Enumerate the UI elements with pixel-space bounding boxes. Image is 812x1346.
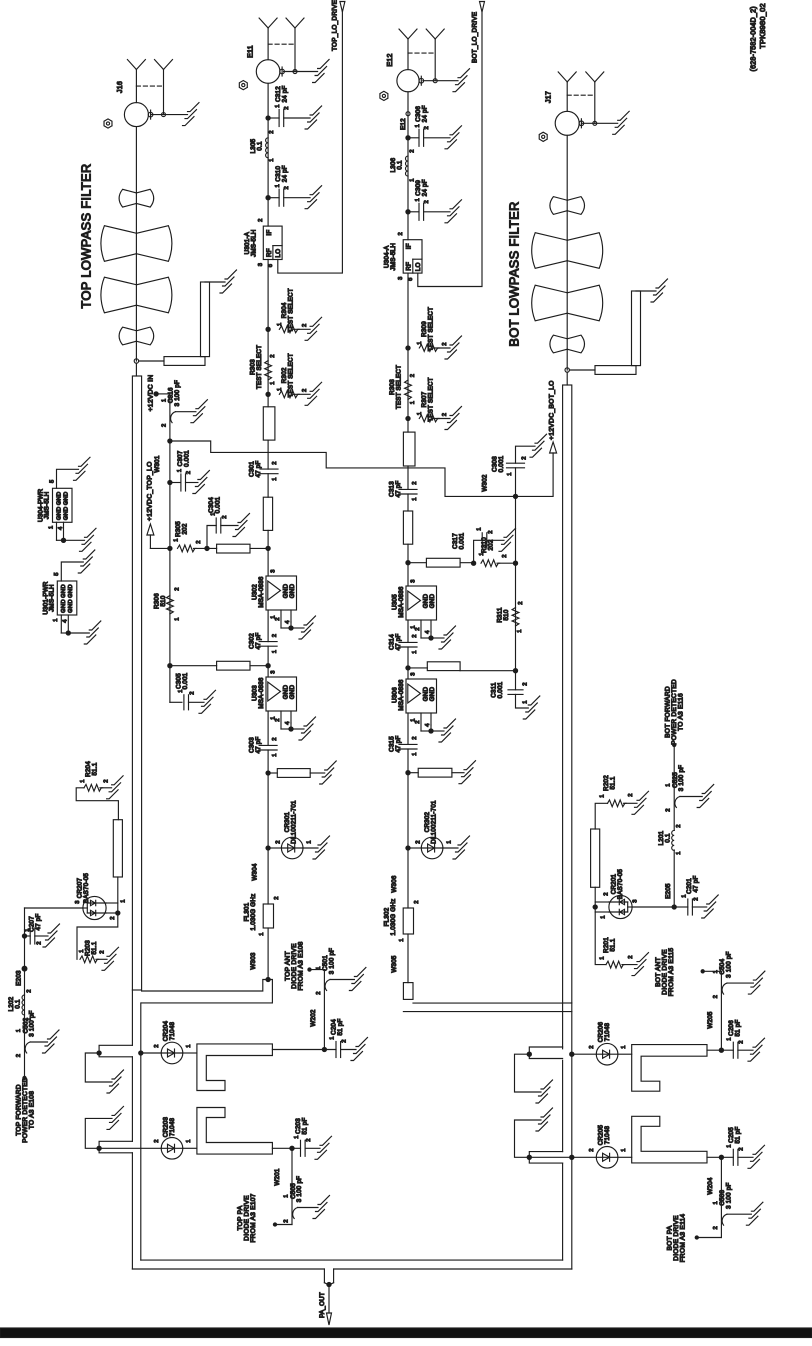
svg-text:RF: RF	[406, 262, 413, 271]
antenna at E11	[267, 28, 269, 60]
node at BOT lowpass output	[565, 368, 569, 372]
svg-text:TEST SELECT: TEST SELECT	[288, 288, 295, 332]
coupled line rect TOP detector	[113, 820, 122, 877]
svg-text:202: 202	[182, 523, 189, 534]
resistor R204	[84, 784, 103, 791]
inductor L202	[22, 995, 25, 1015]
svg-text:1: 1	[713, 970, 719, 973]
svg-text:2: 2	[521, 456, 527, 459]
svg-text:1: 1	[523, 700, 529, 703]
capacitor C317	[474, 540, 483, 563]
svg-text:W305: W305	[391, 955, 398, 972]
svg-text:47 pF: 47 pF	[255, 632, 262, 649]
svg-text:1: 1	[272, 477, 278, 480]
wire J17 shell to ground	[582, 122, 618, 124]
microstrip C-section TOP PA	[197, 1108, 273, 1155]
svg-text:2: 2	[738, 1040, 744, 1043]
wire detector output	[24, 908, 26, 1078]
amplifier U306	[406, 679, 437, 713]
svg-text:GND: GND	[61, 599, 67, 613]
svg-text:GND: GND	[56, 491, 62, 505]
arrow +12VDC_BOT_LO	[550, 442, 557, 453]
capacitor C302	[259, 641, 277, 643]
svg-text:1: 1	[446, 840, 452, 843]
svg-text:0.001: 0.001	[182, 672, 189, 689]
svg-text:E12: E12	[387, 53, 394, 66]
svg-text:0.1: 0.1	[257, 141, 264, 151]
matching stub line TOP	[139, 360, 164, 362]
resistor R305	[150, 547, 171, 549]
svg-text:TEST SELECT: TEST SELECT	[428, 307, 435, 351]
svg-text:W301: W301	[154, 455, 161, 472]
feedthrough C505	[293, 1208, 298, 1219]
wire	[407, 713, 409, 744]
svg-text:2: 2	[36, 941, 42, 944]
svg-text:JMS-5LH: JMS-5LH	[44, 492, 51, 520]
bias row R310	[406, 561, 410, 565]
diode CR203	[99, 1147, 161, 1149]
capacitor C313	[399, 488, 417, 490]
capacitor C206	[732, 1042, 734, 1058]
svg-text:71048: 71048	[169, 1021, 176, 1040]
wire E11 down	[267, 83, 269, 226]
feedthrough C504	[722, 983, 727, 994]
wire W305	[407, 934, 409, 983]
connector E11	[256, 60, 280, 84]
svg-text:GND: GND	[61, 584, 67, 598]
svg-text:47 pF: 47 pF	[255, 736, 262, 753]
wire J17 to lowpass junction	[566, 135, 568, 370]
svg-text:3 100 pF: 3 100 pF	[678, 765, 685, 791]
svg-text:51.1: 51.1	[610, 776, 617, 789]
svg-text:2: 2	[628, 793, 634, 796]
wire	[407, 620, 409, 642]
svg-text:4: 4	[285, 620, 291, 624]
svg-text:2: 2	[270, 354, 276, 357]
wire to C204	[272, 1049, 336, 1051]
svg-text:6: 6	[268, 264, 274, 267]
svg-text:2: 2	[398, 232, 404, 235]
svg-text:FROM A3 E108: FROM A3 E108	[298, 941, 305, 990]
svg-text:1: 1	[53, 618, 59, 621]
wire	[267, 440, 269, 469]
svg-text:FROM A3 E115: FROM A3 E115	[668, 948, 675, 997]
svg-text:2: 2	[442, 342, 448, 345]
svg-text:47 pF: 47 pF	[395, 480, 402, 497]
dashed antenna link J17	[567, 94, 595, 96]
svg-text:2: 2	[275, 718, 281, 721]
diode CR302	[406, 846, 410, 850]
capacitor C306	[406, 136, 410, 140]
svg-text:2: 2	[410, 374, 416, 377]
microstrip C-section TOP ANT	[197, 1044, 273, 1091]
svg-text:51 pF: 51 pF	[735, 1126, 742, 1143]
svg-text:6: 6	[408, 277, 414, 280]
svg-text:2: 2	[415, 627, 421, 630]
resistor R202	[608, 800, 627, 807]
wire	[267, 750, 269, 848]
svg-text:GND: GND	[289, 583, 296, 598]
matching stub line BOT	[569, 369, 595, 371]
node at lowpass output	[134, 359, 138, 363]
svg-text:3 100 pF: 3 100 pF	[174, 380, 181, 406]
wire W205	[720, 971, 722, 1050]
svg-text:RF: RF	[266, 248, 273, 257]
coupler tab 1 TOP	[99, 1045, 132, 1057]
transmission line rect (U303 row)	[217, 661, 250, 670]
svg-text:24 pF: 24 pF	[422, 105, 429, 122]
svg-text:3 100 pF: 3 100 pF	[725, 951, 732, 977]
diode CR301	[266, 846, 270, 850]
wire W303	[267, 928, 269, 980]
microstrip C-section BOT PA	[632, 1116, 707, 1163]
microstrip C-section BOT ANT	[632, 1045, 707, 1092]
svg-text:1: 1	[726, 1144, 732, 1147]
wire J16 shell to ground	[151, 114, 188, 116]
svg-text:2: 2	[258, 218, 264, 221]
wire	[407, 749, 409, 848]
flag TOP_LO_DRIVE	[340, 2, 345, 13]
wire down to CR201	[594, 887, 596, 907]
resistor R309 TEST SELECT	[406, 346, 410, 350]
junction W303 to box	[266, 977, 270, 981]
svg-text:2: 2	[713, 1226, 719, 1229]
svg-text:47 pF: 47 pF	[35, 913, 42, 930]
svg-text:GND: GND	[429, 593, 436, 608]
svg-text:51.1: 51.1	[91, 941, 98, 954]
svg-text:2: 2	[103, 779, 109, 782]
svg-text:1: 1	[417, 412, 423, 415]
svg-text:+12VDC_TOP_LO: +12VDC_TOP_LO	[146, 461, 153, 521]
svg-text:2: 2	[175, 587, 181, 590]
svg-text:1: 1	[120, 899, 126, 902]
svg-text:2: 2	[272, 634, 278, 637]
svg-text:2: 2	[272, 737, 278, 740]
svg-text:5: 5	[54, 572, 60, 575]
svg-text:3: 3	[75, 900, 81, 903]
svg-text:BAS70-05: BAS70-05	[617, 869, 624, 900]
svg-text:J17: J17	[545, 91, 552, 103]
wire	[267, 711, 269, 745]
svg-text:GND: GND	[56, 506, 62, 520]
bowtie stub 4	[119, 327, 136, 345]
svg-text:51 pF: 51 pF	[337, 1018, 344, 1035]
bowtie stub 3 BOT	[532, 285, 568, 321]
svg-text:1: 1	[48, 526, 54, 529]
svg-text:0.001: 0.001	[498, 455, 505, 472]
svg-text:2: 2	[302, 389, 308, 392]
capacitor C201	[672, 905, 676, 909]
amplifier U302	[266, 576, 297, 610]
svg-text:W304: W304	[252, 863, 259, 880]
svg-text:JMS-5LH: JMS-5LH	[48, 584, 55, 612]
power box U304-PWR	[53, 488, 73, 522]
svg-text:24 pF: 24 pF	[422, 179, 429, 196]
svg-text:1: 1	[412, 752, 418, 755]
svg-text:2: 2	[274, 896, 280, 899]
feedthrough C316	[171, 412, 176, 423]
enclosure wall right	[562, 1003, 564, 1049]
antenna at E12	[407, 39, 409, 70]
svg-text:2: 2	[283, 1219, 289, 1222]
svg-text:2: 2	[186, 471, 192, 474]
svg-text:1: 1	[16, 1029, 22, 1032]
capacitor C303	[259, 744, 277, 746]
dashed antenna link E11	[268, 43, 295, 45]
BOT_LO_DRIVE net wire	[418, 12, 482, 287]
resistor R311	[512, 608, 519, 626]
BOT ANT DIODE DRIVE entry	[701, 970, 704, 973]
bowtie stub 2 BOT	[532, 233, 568, 269]
transmission line rect BOT 1	[403, 432, 415, 466]
svg-text:1: 1	[417, 341, 423, 344]
svg-text:(628-7582-004D_2): (628-7582-004D_2)	[750, 6, 757, 71]
svg-text:W204: W204	[707, 1177, 714, 1194]
bowtie stub 1 BOT	[550, 197, 567, 215]
svg-text:2: 2	[316, 991, 322, 994]
bowtie stub 2	[101, 226, 136, 262]
svg-text:+12VDC_BOT_LO: +12VDC_BOT_LO	[549, 380, 556, 440]
svg-text:2: 2	[154, 1044, 160, 1047]
svg-text:MSA-0886: MSA-0886	[398, 679, 405, 711]
svg-text:2: 2	[284, 186, 290, 189]
svg-text:1: 1	[412, 497, 418, 500]
svg-text:1: 1	[283, 1194, 289, 1197]
svg-text:1: 1	[277, 388, 283, 391]
svg-text:1: 1	[415, 124, 421, 127]
wire R204 to coupler line	[76, 788, 118, 820]
wire U304 RF down	[407, 273, 409, 432]
filter FL301	[263, 904, 273, 928]
wire W202	[323, 970, 325, 1050]
coupler tab 1 BOT	[529, 1047, 562, 1059]
svg-text:3 100 pF: 3 100 pF	[29, 1010, 36, 1036]
svg-text:1: 1	[676, 851, 682, 854]
flag PA_OUT	[327, 1313, 332, 1325]
svg-text:DL100211-701: DL100211-701	[431, 800, 438, 844]
main line BOT (long transmission line)	[566, 372, 568, 385]
test point E12	[406, 112, 410, 116]
transmission line rect TOP 2	[263, 497, 272, 530]
resistor R308 TEST SELECT	[405, 380, 412, 400]
svg-text:MSA-0886: MSA-0886	[398, 586, 405, 618]
svg-text:3 100 pF: 3 100 pF	[328, 948, 335, 974]
svg-text:2: 2	[99, 950, 105, 953]
wire R202 to coupled line	[595, 803, 607, 829]
svg-text:LO: LO	[415, 262, 422, 271]
capacitor C311	[515, 671, 517, 690]
transmission line rect BOT 2	[403, 511, 412, 544]
svg-text:2: 2	[424, 126, 430, 129]
svg-text:2: 2	[738, 1147, 744, 1150]
node + stub (C315 row)	[406, 771, 410, 775]
wire down to CR207	[116, 911, 120, 915]
junction W305 pad to box	[403, 983, 413, 1000]
antenna at E11 shell	[294, 28, 296, 72]
row U306 wire	[513, 669, 517, 673]
capacitor C312	[266, 116, 270, 120]
coupled stub 2 TOP	[85, 1118, 112, 1148]
svg-text:2: 2	[603, 892, 609, 895]
enclosure inner line left / main line	[140, 1003, 142, 1260]
wire	[267, 646, 269, 677]
svg-text:2: 2	[488, 530, 494, 533]
resistor R203	[77, 913, 118, 959]
TOP_LO_DRIVE net wire	[278, 12, 343, 273]
svg-text:1: 1	[186, 1044, 192, 1047]
svg-text:4: 4	[425, 723, 431, 727]
svg-text:1: 1	[410, 401, 416, 404]
svg-text:E11: E11	[247, 45, 254, 58]
svg-text:0.001: 0.001	[459, 532, 466, 549]
svg-text:71048: 71048	[604, 1125, 611, 1144]
svg-text:MSA-0886: MSA-0886	[258, 677, 265, 709]
dashed antenna link	[136, 85, 163, 87]
svg-text:W201: W201	[274, 1168, 281, 1185]
svg-text:2: 2	[412, 634, 418, 637]
svg-text:1: 1	[269, 158, 275, 161]
svg-text:510: 510	[503, 609, 510, 620]
ground at J16	[188, 103, 200, 112]
capacitor C204	[335, 1042, 337, 1058]
svg-text:2: 2	[275, 840, 281, 843]
capacitor C314	[399, 641, 417, 643]
svg-text:2: 2	[628, 955, 634, 958]
wire W306	[407, 848, 409, 908]
svg-text:1: 1	[316, 966, 322, 969]
svg-text:1: 1	[177, 469, 183, 472]
+12V feed to U303 row	[169, 548, 171, 665]
svg-text:2: 2	[189, 691, 195, 694]
amplifier U305	[406, 586, 437, 620]
svg-text:JMS-5LH: JMS-5LH	[250, 229, 257, 257]
wire	[407, 466, 409, 489]
svg-text:1: 1	[272, 753, 278, 756]
svg-text:0.1: 0.1	[397, 160, 404, 170]
svg-text:47 pF: 47 pF	[693, 875, 700, 892]
svg-text:1: 1	[415, 198, 421, 201]
svg-text:2: 2	[269, 130, 275, 133]
svg-text:2: 2	[414, 900, 420, 903]
resistor R201	[595, 907, 606, 965]
hex symbol near J16	[104, 119, 112, 128]
enclosure main line right	[571, 1003, 573, 1269]
bowtie stub 1	[119, 189, 136, 207]
main line TOP (long transmission line)	[135, 363, 137, 376]
coupled line rect BOT detector	[591, 829, 600, 887]
wire	[267, 474, 269, 498]
svg-text:BOT_LO_DRIVE: BOT_LO_DRIVE	[472, 12, 479, 63]
svg-text:W306: W306	[391, 875, 398, 892]
svg-text:3: 3	[258, 263, 264, 266]
hex symbol near J17	[539, 132, 547, 141]
svg-text:47 pF: 47 pF	[395, 633, 402, 650]
transmission line rect (R305 row)	[217, 544, 250, 553]
resistor R302 TEST SELECT	[266, 392, 270, 396]
svg-text:3: 3	[270, 569, 276, 572]
svg-text:GND: GND	[429, 686, 436, 701]
capacitor C207	[22, 934, 26, 938]
svg-text:0.001: 0.001	[183, 450, 190, 467]
feedthrough C503	[722, 1214, 727, 1225]
svg-text:4: 4	[285, 721, 291, 725]
svg-text:J16: J16	[117, 81, 124, 93]
svg-text:IF: IF	[266, 230, 273, 236]
power box U301-PWR	[57, 581, 77, 615]
svg-text:W202: W202	[310, 1009, 317, 1026]
connector E12	[397, 70, 419, 92]
svg-text:5: 5	[49, 480, 55, 483]
dashed antenna link E12	[408, 52, 435, 54]
svg-text:JMS-5LH: JMS-5LH	[390, 243, 397, 271]
connector J16	[124, 103, 148, 127]
capacitor C307	[168, 480, 172, 484]
svg-text:2: 2	[589, 1148, 595, 1151]
wire U301 RF down	[267, 260, 269, 407]
wire E12 shell to ground	[423, 80, 458, 82]
svg-text:3: 3	[270, 670, 276, 673]
svg-text:TOP_LO_DRIVE: TOP_LO_DRIVE	[332, 0, 339, 51]
svg-text:1: 1	[329, 1036, 335, 1039]
svg-text:1: 1	[507, 472, 513, 475]
svg-text:GND: GND	[68, 584, 74, 598]
svg-text:3: 3	[632, 899, 638, 902]
svg-text:510: 510	[160, 595, 167, 606]
svg-text:GND: GND	[63, 506, 69, 520]
antenna at J17	[566, 82, 568, 111]
svg-text:2: 2	[161, 423, 167, 426]
svg-text:2: 2	[666, 808, 672, 811]
svg-text:2: 2	[523, 682, 529, 685]
coupled stub 1 TOP	[85, 1053, 112, 1082]
svg-text:1: 1	[621, 1148, 627, 1151]
svg-text:51.1: 51.1	[92, 762, 99, 775]
svg-text:2: 2	[275, 617, 281, 620]
svg-text:47 pF: 47 pF	[255, 460, 262, 477]
svg-text:1: 1	[270, 381, 276, 384]
svg-text:W302: W302	[482, 474, 489, 491]
svg-text:1: 1	[161, 398, 167, 401]
svg-text:1: 1	[277, 323, 283, 326]
svg-text:3 100 pF: 3 100 pF	[725, 1182, 732, 1208]
svg-text:2: 2	[518, 601, 524, 604]
capacitor C305	[169, 666, 171, 703]
svg-text:1: 1	[713, 1201, 719, 1204]
resistor R303 TEST SELECT	[265, 361, 272, 381]
flag BOT_LO_DRIVE	[480, 2, 485, 13]
dual diode CR201 BAS70-05	[632, 906, 674, 908]
svg-text:2: 2	[16, 1054, 22, 1057]
wire J16 to lowpass junction	[135, 127, 137, 361]
wire chain U302 out	[267, 610, 269, 642]
svg-text:GND: GND	[68, 599, 74, 613]
svg-text:2: 2	[302, 324, 308, 327]
svg-text:0.1: 0.1	[15, 999, 22, 1009]
svg-text:2: 2	[589, 1045, 595, 1048]
diode CR206	[570, 1052, 574, 1056]
svg-text:47 pF: 47 pF	[395, 735, 402, 752]
svg-text:4: 4	[58, 526, 64, 530]
bowtie stub 4 BOT	[550, 335, 567, 353]
svg-text:DL100211-701: DL100211-701	[291, 800, 298, 844]
svg-text:0.001: 0.001	[497, 681, 504, 698]
svg-text:2: 2	[26, 989, 32, 992]
ground at J17	[618, 111, 630, 120]
filter FL302	[403, 908, 413, 934]
svg-text:2: 2	[424, 200, 430, 203]
svg-text:2: 2	[341, 1039, 347, 1042]
svg-text:BAS70-05: BAS70-05	[83, 873, 90, 904]
